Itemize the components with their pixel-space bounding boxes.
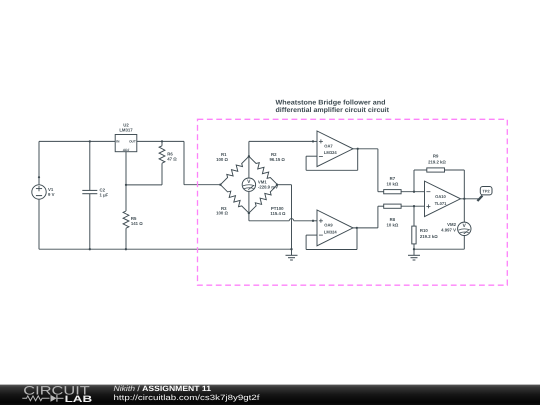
node bridge right vertex bbox=[276, 184, 278, 186]
svg-text:1 µF: 1 µF bbox=[100, 193, 109, 198]
svg-text:R10: R10 bbox=[420, 228, 428, 233]
ground symbol at bridge bbox=[291, 249, 293, 255]
node R5 bottom junction bbox=[125, 248, 127, 250]
svg-text:100 Ω: 100 Ω bbox=[216, 211, 228, 216]
svg-text:http://circuitlab.com/cs3k7j8y: http://circuitlab.com/cs3k7j8y9gt2f bbox=[114, 393, 261, 402]
svg-text:LM324: LM324 bbox=[324, 150, 337, 155]
resistor R1 bbox=[220, 156, 249, 184]
svg-text:differential amplifier circuit: differential amplifier circuit circuit bbox=[276, 107, 390, 114]
svg-text:LM324: LM324 bbox=[324, 230, 337, 235]
node R7 output junction bbox=[413, 191, 415, 193]
wire OUT rail to bridge corner bbox=[162, 140, 184, 142]
node ADJ junction bbox=[125, 184, 127, 186]
op-amp OA10 bbox=[425, 181, 461, 217]
node R8 output junction bbox=[413, 205, 415, 207]
svg-text:ADJ: ADJ bbox=[122, 148, 130, 152]
wire OA10 output bbox=[461, 198, 480, 200]
svg-text:9 V: 9 V bbox=[48, 192, 55, 197]
svg-text:47 Ω: 47 Ω bbox=[167, 157, 177, 162]
svg-text:TP2: TP2 bbox=[483, 188, 491, 193]
svg-text:10 kΩ: 10 kΩ bbox=[386, 182, 398, 187]
svg-text:R6: R6 bbox=[167, 151, 173, 156]
wire bridge top to OA7 plus bbox=[248, 141, 250, 156]
resistor R10 bbox=[413, 206, 415, 226]
svg-text:OA7: OA7 bbox=[324, 143, 333, 148]
svg-text:115.4 Ω: 115.4 Ω bbox=[270, 211, 286, 216]
wire OA7 output to R7 bbox=[353, 148, 378, 150]
svg-text:4.997 V: 4.997 V bbox=[441, 227, 456, 232]
wire OA7 feedback loop bbox=[306, 155, 317, 157]
wire top rail from V1 to U2 IN bbox=[39, 140, 115, 142]
voltmeter VM1 bbox=[248, 156, 250, 177]
logo resistor zigzag and diode bbox=[22, 396, 49, 401]
node bridge left vertex bbox=[219, 184, 221, 186]
resistor R5 bbox=[125, 185, 127, 211]
svg-text:219.2 kΩ: 219.2 kΩ bbox=[420, 234, 438, 239]
node bridge bottom vertex bbox=[248, 212, 250, 214]
resistor R7 bbox=[384, 190, 401, 194]
svg-text:OA9: OA9 bbox=[324, 223, 333, 228]
svg-text:10 kΩ: 10 kΩ bbox=[386, 222, 398, 227]
wire U2 OUT to R6 node bbox=[137, 140, 162, 142]
node R10 ground junction bbox=[413, 248, 415, 250]
capacitor C2 bbox=[89, 141, 91, 190]
wire OA9 output to R8 bbox=[353, 227, 378, 229]
svg-text:R5: R5 bbox=[131, 216, 137, 221]
svg-text:OA10: OA10 bbox=[435, 194, 446, 199]
resistor R3 bbox=[220, 185, 249, 213]
wire VM2 to ground bbox=[414, 248, 464, 250]
node OA9 plus pin bbox=[312, 220, 314, 222]
svg-text:96.15 Ω: 96.15 Ω bbox=[269, 157, 285, 162]
dashed annotation box bbox=[198, 119, 508, 285]
test point TP2 bbox=[477, 196, 482, 201]
svg-text:100 Ω: 100 Ω bbox=[216, 157, 228, 162]
node OA10 output junction bbox=[463, 198, 465, 200]
wire bridge right to ground rail bbox=[277, 184, 292, 186]
svg-text:141 Ω: 141 Ω bbox=[131, 221, 143, 226]
op-amp OA7 bbox=[317, 131, 353, 167]
node OA7 output junction bbox=[357, 148, 359, 150]
svg-text:-228.9 mV: -228.9 mV bbox=[258, 185, 278, 190]
svg-text:Nikith / ASSIGNMENT 11: Nikith / ASSIGNMENT 11 bbox=[114, 384, 212, 393]
node OA7 plus pin bbox=[312, 140, 314, 142]
resistor R8 bbox=[384, 204, 401, 208]
node top rail / C2 junction bbox=[89, 140, 91, 142]
node OA9 output junction bbox=[356, 227, 358, 229]
svg-text:R9: R9 bbox=[433, 154, 439, 159]
node bridge top vertex bbox=[248, 155, 250, 157]
svg-text:R7: R7 bbox=[390, 176, 396, 181]
op-amp OA9 bbox=[317, 210, 353, 246]
wire OA9 feedback loop bbox=[306, 234, 317, 236]
svg-text:LAB: LAB bbox=[65, 394, 93, 404]
resistor R9 bbox=[413, 170, 415, 192]
svg-text:TL071: TL071 bbox=[435, 201, 448, 206]
node ground rail end bbox=[290, 248, 292, 250]
resistor R2 bbox=[249, 156, 278, 184]
wire ADJ to R6 bottom bbox=[125, 152, 127, 185]
regulator U2 LM317 bbox=[115, 135, 137, 152]
node U2 OUT / R6 junction bbox=[161, 140, 163, 142]
wire ground rail bottom bbox=[39, 248, 292, 250]
ground symbol at R10 bbox=[413, 249, 415, 255]
svg-text:Wheatstone Bridge follower and: Wheatstone Bridge follower and bbox=[276, 99, 386, 106]
node C2 bottom junction bbox=[89, 248, 91, 250]
svg-text:LM317: LM317 bbox=[119, 128, 133, 133]
wire bridge bottom to OA9 plus bbox=[248, 213, 250, 221]
svg-text:OUT: OUT bbox=[129, 140, 136, 144]
resistor R6 bbox=[159, 146, 165, 163]
voltage source V1 bbox=[38, 141, 40, 184]
svg-text:219.2 kΩ: 219.2 kΩ bbox=[428, 159, 446, 164]
voltmeter VM2 bbox=[463, 199, 465, 222]
svg-text:R8: R8 bbox=[390, 217, 396, 222]
resistor PT100 bbox=[249, 185, 278, 213]
